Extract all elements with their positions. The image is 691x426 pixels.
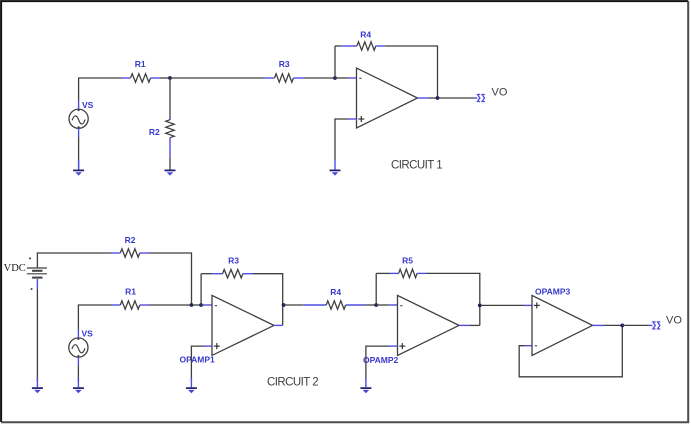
connector VO (circuit 1) (478, 94, 485, 101)
svg-text:R4: R4 (360, 30, 371, 40)
pin ground lead (334, 160, 336, 170)
wire VS top to R1 line (78, 305, 112, 330)
svg-text:VO: VO (492, 87, 508, 99)
wire node C to node D (192, 304, 202, 306)
pin - input op-amp U1 (348, 77, 357, 79)
wire VDC bottom to ground (36, 289, 38, 382)
svg-text:R3: R3 (228, 256, 239, 266)
pin + input op-amp U1 (348, 118, 357, 120)
wire node G to OPAMP3 non-inverting input (480, 304, 524, 306)
svg-text:R3: R3 (279, 59, 290, 69)
ground below OPAMP1 (186, 378, 197, 393)
wire VS bottom to ground (78, 137, 80, 170)
connector VO (circuit 2) (653, 322, 660, 329)
resistor R4 (circuit 2) (303, 301, 365, 309)
wire R5 left segment (376, 272, 390, 274)
wire node A to R3 (170, 77, 265, 79)
wire node D to OPAMP1 inverting input (201, 304, 203, 306)
wire VS top to R1 (79, 78, 122, 101)
wire node B to op-amp inverting input (335, 77, 348, 79)
pin output op-amp U1 (418, 97, 430, 99)
ground below VS (circuit 2) (73, 378, 84, 393)
ground below R2 (circuit 1) (165, 170, 176, 175)
wire output OPAMP3 to node H (604, 324, 622, 326)
svg-text:R2: R2 (125, 235, 136, 245)
svg-text:VS: VS (82, 329, 94, 339)
wire R4 to output node (385, 46, 438, 98)
resistor R5 (circuit 2) (390, 269, 426, 277)
ground below VDC (32, 378, 43, 393)
wire to VO connector (438, 97, 474, 99)
node D junction (199, 303, 203, 307)
svg-text:VS: VS (82, 100, 94, 110)
op-amp OPAMP2 (398, 295, 460, 355)
wire R2 to node C (149, 253, 192, 305)
svg-text:VDC: VDC (4, 263, 26, 274)
ground below op-amp U1 (330, 170, 341, 175)
pin output OPAMP3 (593, 324, 605, 326)
node G junction (OPAMP2 output tap) (478, 304, 482, 308)
svg-text:R1: R1 (125, 287, 136, 297)
pin - input OPAMP3 (524, 345, 532, 347)
svg-text:OPAMP2: OPAMP2 (363, 355, 399, 365)
pin + input OPAMP2 (389, 345, 397, 347)
wire R4 to node F (365, 304, 376, 306)
wire R5 to OPAMP2 output branch (426, 273, 480, 325)
wire node E to R4 (284, 304, 304, 306)
op-amp OPAMP1 (212, 295, 274, 355)
source VS (circuit 1) (69, 101, 88, 137)
node B junction (333, 76, 337, 80)
op-amp OPAMP3 (532, 295, 593, 355)
pin + input OPAMP1 (204, 345, 213, 347)
wire output OPAMP2 to feedback corner (470, 324, 480, 326)
wire + input OPAMP2 to ground (366, 346, 390, 380)
ground below VS (circuit 1) (73, 160, 84, 176)
pin + input OPAMP3 (524, 304, 532, 306)
op-amp U1 (circuit 1) (357, 68, 418, 128)
pin output OPAMP1 (274, 324, 283, 326)
node H junction (620, 324, 624, 328)
wire R4 left segment (335, 45, 341, 47)
svg-text:CIRCUIT 2: CIRCUIT 2 (267, 377, 318, 389)
svg-text:R1: R1 (135, 59, 146, 69)
wire R1 to node A (160, 77, 170, 79)
svg-text:CIRCUIT 1: CIRCUIT 1 (391, 159, 442, 171)
pin output OPAMP2 (459, 324, 470, 326)
wire node B up to R4 (334, 46, 336, 78)
svg-text:R2: R2 (149, 127, 160, 137)
wire node D up to R3 (200, 274, 202, 305)
wire output to VO (429, 97, 438, 99)
source VDC battery (27, 257, 47, 290)
wire VDC top to R2 (37, 253, 111, 268)
wire + input to ground (335, 119, 348, 160)
wire node F to OPAMP2 inverting input (376, 304, 389, 306)
ground below OPAMP2 (360, 378, 371, 393)
wire R3 to OPAMP1 output branch (253, 274, 283, 326)
wire feedback OPAMP3 (519, 325, 622, 376)
resistor R3 (circuit 2) (212, 270, 253, 278)
svg-text:OPAMP3: OPAMP3 (535, 286, 571, 296)
resistor R4 (circuit 1) (341, 42, 385, 50)
resistor R3 (circuit 1) (265, 74, 304, 82)
node A junction (168, 76, 172, 80)
resistor R2 (circuit 1) (166, 118, 174, 159)
node E junction (OPAMP1 output tap) (282, 303, 286, 307)
svg-text:VO: VO (666, 315, 682, 327)
resistor R2 (circuit 2) (111, 249, 149, 257)
node F junction (374, 303, 378, 307)
wire R2 to ground (169, 158, 171, 170)
resistor R1 (circuit 1) (122, 74, 160, 82)
svg-text:R5: R5 (402, 256, 413, 266)
node C junction (190, 303, 194, 307)
pin - input OPAMP2 (389, 304, 397, 306)
wire R3 left segment (201, 273, 212, 275)
wire node H to VO connector (622, 324, 648, 326)
source VS (circuit 2) (69, 330, 88, 366)
svg-text:R4: R4 (330, 287, 341, 297)
resistor R1 (circuit 2) (112, 301, 149, 309)
wire node A down to R2 (169, 78, 171, 120)
svg-text:OPAMP1: OPAMP1 (180, 355, 216, 365)
wire node F up to R5 (375, 273, 377, 305)
wire + input OPAMP1 to ground (191, 346, 203, 380)
node output junction (circuit 1) (436, 96, 440, 100)
pin - input OPAMP1 (204, 304, 213, 306)
wire R3 to node B (304, 77, 335, 79)
wire R1 to node C (149, 304, 192, 306)
wire VS bottom to ground (77, 366, 79, 382)
